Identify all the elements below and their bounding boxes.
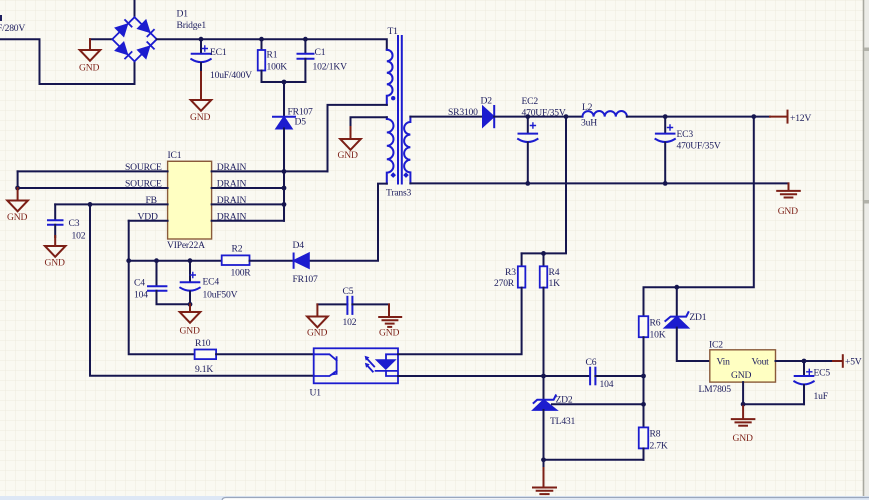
svg-text:102: 102: [343, 317, 357, 328]
svg-text:470UF/35V: 470UF/35V: [522, 108, 566, 119]
wire R3 top lead: [521, 253, 523, 266]
wire C5 right lead: [352, 303, 389, 305]
ground GND (EC1): [191, 72, 212, 111]
capacitor C5: [347, 297, 352, 314]
svg-text:100R: 100R: [231, 268, 252, 279]
wire L2 to +12V port: [627, 116, 770, 118]
junction IC2 ground node: [741, 402, 746, 407]
wire opto LED cathode row: [398, 375, 590, 377]
wire IC1 pin SOURCE 2: [18, 187, 168, 189]
wire R1 top lead: [261, 39, 263, 50]
wire ZD2 ref row to divider: [552, 403, 644, 405]
svg-text:GND: GND: [731, 370, 751, 381]
wire R6 bottom to divider: [643, 337, 645, 427]
wire R4 bottom to feedback node and ZD2: [543, 288, 545, 400]
optocoupler U1 LED: [365, 354, 398, 376]
zener ZD2 TL431: [534, 395, 556, 410]
junction opto cathode node: [541, 374, 546, 379]
svg-text:FR107: FR107: [293, 274, 319, 285]
junction divider at row: [641, 374, 646, 379]
junction drain bus row 1: [282, 169, 287, 174]
junction divider ref node: [641, 402, 646, 407]
svg-text:IC1: IC1: [168, 150, 182, 161]
svg-text:D2: D2: [481, 96, 493, 107]
svg-text:C5: C5: [343, 286, 354, 297]
polarity dot bias winding: [390, 172, 396, 178]
junction EC1 on DC+ rail: [199, 37, 204, 42]
wire R3 R4 feed riser: [522, 117, 566, 254]
svg-text:C4: C4: [134, 278, 145, 289]
svg-text:2.7K: 2.7K: [650, 441, 668, 452]
wire C4 bottom to EC4 bottom: [157, 291, 191, 305]
diode D5: [273, 117, 295, 129]
junction EC2 top: [525, 114, 530, 119]
wire primary bottom to drain riser: [328, 105, 387, 171]
svg-text:R4: R4: [549, 267, 560, 278]
wire EC3 top lead: [664, 117, 666, 133]
svg-text:VDD: VDD: [138, 211, 158, 222]
svg-text:104: 104: [600, 379, 614, 390]
svg-text:GND: GND: [733, 433, 753, 444]
wire EC4 bottom lead: [189, 292, 191, 305]
junction snubber node: [282, 80, 287, 85]
svg-text:C6: C6: [586, 357, 597, 368]
polarity dot primary: [391, 96, 395, 100]
capacitor EC1: [191, 46, 210, 62]
svg-text:+5V: +5V: [845, 357, 862, 368]
window right edge scrollbar strip: [864, 0, 869, 500]
wire IC1 pin VDD: [129, 220, 168, 222]
svg-text:DRAIN: DRAIN: [217, 162, 247, 173]
resistor R2: [222, 255, 250, 265]
wire drain bus: [283, 171, 285, 220]
svg-text:TL431: TL431: [550, 416, 576, 427]
svg-text:VIPer22A: VIPer22A: [167, 240, 205, 251]
wire EC4 top lead: [189, 261, 191, 282]
wire R8 bottom lead: [643, 448, 645, 459]
wire EC1 bottom lead: [200, 63, 202, 73]
junction ZD1 top: [674, 285, 679, 290]
resistor R10: [195, 350, 217, 360]
svg-text:104: 104: [134, 290, 148, 301]
junction R4 top: [541, 251, 546, 256]
wire source pins join: [17, 171, 19, 188]
svg-text:R1: R1: [267, 50, 278, 61]
transformer T1 core: [398, 36, 402, 184]
capacitor C4: [148, 286, 166, 291]
svg-text:GND: GND: [45, 258, 65, 269]
wire IC1 pin SOURCE 1: [18, 170, 168, 172]
optocoupler U1 body: [314, 348, 398, 383]
wire EC2 bottom lead: [527, 143, 529, 184]
svg-text:DRAIN: DRAIN: [217, 211, 247, 222]
svg-text:L2: L2: [582, 102, 593, 113]
wire EC3 bottom lead: [664, 143, 666, 184]
wire FB node down to opto emitter row: [90, 204, 314, 375]
svg-text:270R: 270R: [494, 278, 515, 289]
svg-text:R6: R6: [650, 318, 661, 329]
IC regulator IC2 body: [710, 350, 776, 382]
capacitor EC3: [656, 125, 675, 142]
wire ZD1 anode to IC2 Vin: [677, 328, 710, 361]
svg-text:EC1: EC1: [210, 47, 227, 58]
wire R1 bottom lead: [261, 71, 263, 83]
svg-text:SOURCE: SOURCE: [125, 179, 162, 190]
svg-text:DRAIN: DRAIN: [217, 195, 247, 206]
svg-text:3uH: 3uH: [581, 118, 597, 129]
svg-text:C3: C3: [69, 218, 80, 229]
ground GND (0V rail, earth): [777, 183, 800, 197]
ground GND (C5 left): [307, 304, 328, 327]
transformer T1 primary winding: [387, 50, 393, 105]
svg-text:102/1KV: 102/1KV: [313, 62, 348, 73]
wire Vout to +5V port: [776, 360, 834, 362]
capacitor C6: [590, 368, 595, 385]
junction EC4 ground node: [188, 302, 193, 307]
capacitor EC4: [180, 273, 199, 291]
wire D2 cathode to L2: [494, 116, 582, 118]
power port +12V: [770, 111, 788, 123]
text fragment top-left: [0, 15, 2, 21]
svg-text:1K: 1K: [549, 278, 561, 289]
wire snubber bottom R1-C1: [262, 81, 306, 83]
resistor R4: [540, 266, 548, 287]
svg-text:SR3100: SR3100: [448, 107, 478, 118]
resistor R3: [518, 266, 526, 287]
svg-text:GND: GND: [778, 206, 798, 217]
zener ZD1: [665, 312, 688, 327]
wire bridge AC left to ground: [90, 38, 112, 40]
svg-text:EC5: EC5: [814, 368, 831, 379]
svg-text:Vin: Vin: [717, 357, 731, 368]
wire IC1 pin DRAIN 3: [212, 203, 284, 205]
svg-text:GND: GND: [180, 326, 200, 337]
wire C1 bottom lead: [304, 59, 306, 82]
svg-text:D1: D1: [177, 9, 189, 20]
capacitor EC2: [518, 123, 537, 142]
svg-text:Trans3: Trans3: [386, 188, 412, 199]
svg-text:GND: GND: [307, 328, 327, 339]
svg-text:DRAIN: DRAIN: [217, 179, 247, 190]
wire C3 bottom lead: [54, 225, 56, 237]
svg-text:U1: U1: [310, 388, 322, 399]
junction drain bus row 3: [282, 202, 287, 207]
junction VDD supply node: [126, 258, 131, 263]
svg-text:FB: FB: [146, 195, 157, 206]
ground GND (C3): [45, 236, 66, 257]
ground GND (bridge AC side): [80, 39, 101, 61]
transformer T1 bias winding: [387, 117, 394, 183]
wire EC1 top lead: [200, 39, 202, 53]
junction drain bus row 2: [282, 186, 287, 191]
svg-text:100K: 100K: [267, 62, 288, 73]
wire ZD2 anode to ground: [543, 460, 545, 469]
wire R2 to D4 cathode: [250, 260, 294, 262]
wire snubber node to D5 cathode: [283, 82, 285, 117]
svg-text:R8: R8: [650, 429, 661, 440]
svg-text:GND: GND: [338, 150, 358, 161]
svg-text:R3: R3: [505, 267, 516, 278]
svg-text:D4: D4: [293, 240, 305, 251]
svg-text:ZD1: ZD1: [689, 312, 706, 323]
wire R4 top lead: [543, 253, 545, 266]
resistor R6: [639, 316, 649, 337]
wire ZD2 anode down: [543, 410, 545, 460]
svg-text:+12V: +12V: [790, 113, 811, 124]
ground GND (source): [7, 188, 28, 211]
wire IC1 pin DRAIN 4: [212, 220, 284, 222]
wire IC1 pin DRAIN 1: [212, 170, 328, 172]
wire FB to C3: [54, 204, 56, 220]
inductor L2: [583, 111, 627, 117]
ground GND (bias winding): [340, 127, 361, 150]
junction C1 on DC+ rail: [303, 37, 308, 42]
polarity dot secondary: [403, 172, 409, 178]
resistor R1: [258, 50, 266, 71]
capacitor C3: [48, 220, 63, 225]
junction source node: [15, 186, 20, 191]
wire R10 to opto collector: [216, 353, 314, 355]
svg-text:GND: GND: [7, 212, 27, 223]
wire VDD down to supply node and R10 row: [129, 221, 195, 354]
svg-text:GND: GND: [79, 63, 99, 74]
bridge rectifier D1: [112, 17, 157, 61]
svg-text:GND: GND: [379, 328, 399, 339]
ground GND (EC4): [180, 304, 201, 323]
wire bias winding top to ground: [351, 117, 387, 128]
junction EC4 top: [188, 258, 193, 263]
wire ZD1 cathode lead: [676, 287, 678, 316]
wire bias winding bottom to D4 anode: [309, 184, 387, 261]
wire EC5 bottom lead: [803, 385, 805, 404]
wire bottom net to R8: [544, 459, 644, 461]
junction bottom net: [541, 457, 546, 462]
wire EC5 top lead: [803, 361, 805, 376]
svg-text:1uF: 1uF: [814, 391, 828, 402]
wire C4 top lead: [156, 261, 158, 286]
ground GND (IC2, earth): [732, 404, 755, 426]
junction EC2 bottom on 0V rail: [525, 181, 530, 186]
wire C5 left lead: [317, 303, 347, 305]
svg-text:C1: C1: [315, 47, 326, 58]
svg-text:10uF/400V: 10uF/400V: [210, 70, 252, 81]
svg-text:102: 102: [72, 231, 86, 242]
transformer T1 secondary winding: [404, 117, 410, 184]
wire +12V branch down to regulator net: [644, 117, 754, 317]
wire IC2 ground to EC5 bottom: [743, 403, 804, 405]
svg-text:R2: R2: [232, 244, 243, 255]
junction EC5 top: [802, 359, 807, 364]
wire C1 top lead: [304, 39, 306, 53]
svg-text:9.1K: 9.1K: [195, 364, 213, 375]
wire C6 to divider node: [595, 375, 643, 377]
svg-text:10K: 10K: [650, 330, 666, 341]
svg-text:EC2: EC2: [522, 96, 539, 107]
junction C4 top: [154, 258, 159, 263]
svg-text:Vout: Vout: [752, 357, 770, 368]
wire secondary 0V rail: [410, 182, 788, 184]
junction FB branch node: [88, 202, 93, 207]
ground GND (TL431, earth): [533, 468, 556, 494]
svg-text:EC3: EC3: [677, 129, 694, 140]
junction R1 on DC+ rail: [259, 37, 264, 42]
junction EC3 top: [663, 114, 668, 119]
wire IC1 pin FB: [55, 203, 167, 205]
svg-text:IC2: IC2: [709, 340, 723, 351]
junction regulator feed: [751, 114, 756, 119]
IC U1 controller IC1 body: [168, 161, 212, 239]
svg-text:EC4: EC4: [203, 277, 220, 288]
wire secondary top to D2 anode: [410, 116, 483, 118]
optocoupler U1 phototransistor: [314, 354, 337, 376]
wire IC1 pin DRAIN 2: [212, 187, 284, 189]
svg-text:470UF/35V: 470UF/35V: [677, 141, 721, 152]
ground GND (C5 right, earth): [379, 304, 401, 327]
window bottom strip: [0, 496, 869, 500]
junction EC3 bottom on 0V rail: [663, 181, 668, 186]
svg-text:R10: R10: [195, 338, 211, 349]
junction R3 R4 feed: [564, 114, 569, 119]
wire D5 anode to drain row: [283, 129, 285, 172]
diode D4: [294, 254, 309, 268]
wire DC+ rail to transformer primary: [157, 39, 387, 50]
svg-text:D5: D5: [295, 117, 307, 128]
svg-text:SOURCE: SOURCE: [125, 162, 162, 173]
wire EC2 top lead: [527, 117, 529, 133]
svg-text:10uF50V: 10uF50V: [203, 290, 238, 301]
svg-text:T1: T1: [388, 26, 399, 37]
wire VDD node to R2: [129, 260, 222, 262]
capacitor C1: [298, 54, 314, 59]
svg-text:LM7805: LM7805: [699, 384, 732, 395]
diode D2: [483, 106, 494, 127]
wire IC2 GND pin down: [742, 382, 744, 404]
wire R3 bottom to opto LED anode: [398, 288, 522, 355]
resistor R8: [639, 427, 649, 448]
svg-text:GND: GND: [190, 112, 210, 123]
svg-text:Bridge1: Bridge1: [177, 20, 207, 31]
svg-text:F/280V: F/280V: [0, 23, 25, 34]
power port +5V: [833, 355, 843, 367]
wire bridge top to sheet edge: [134, 0, 136, 17]
wire AC line input to bridge bottom: [0, 39, 135, 84]
capacitor EC5: [794, 369, 813, 384]
